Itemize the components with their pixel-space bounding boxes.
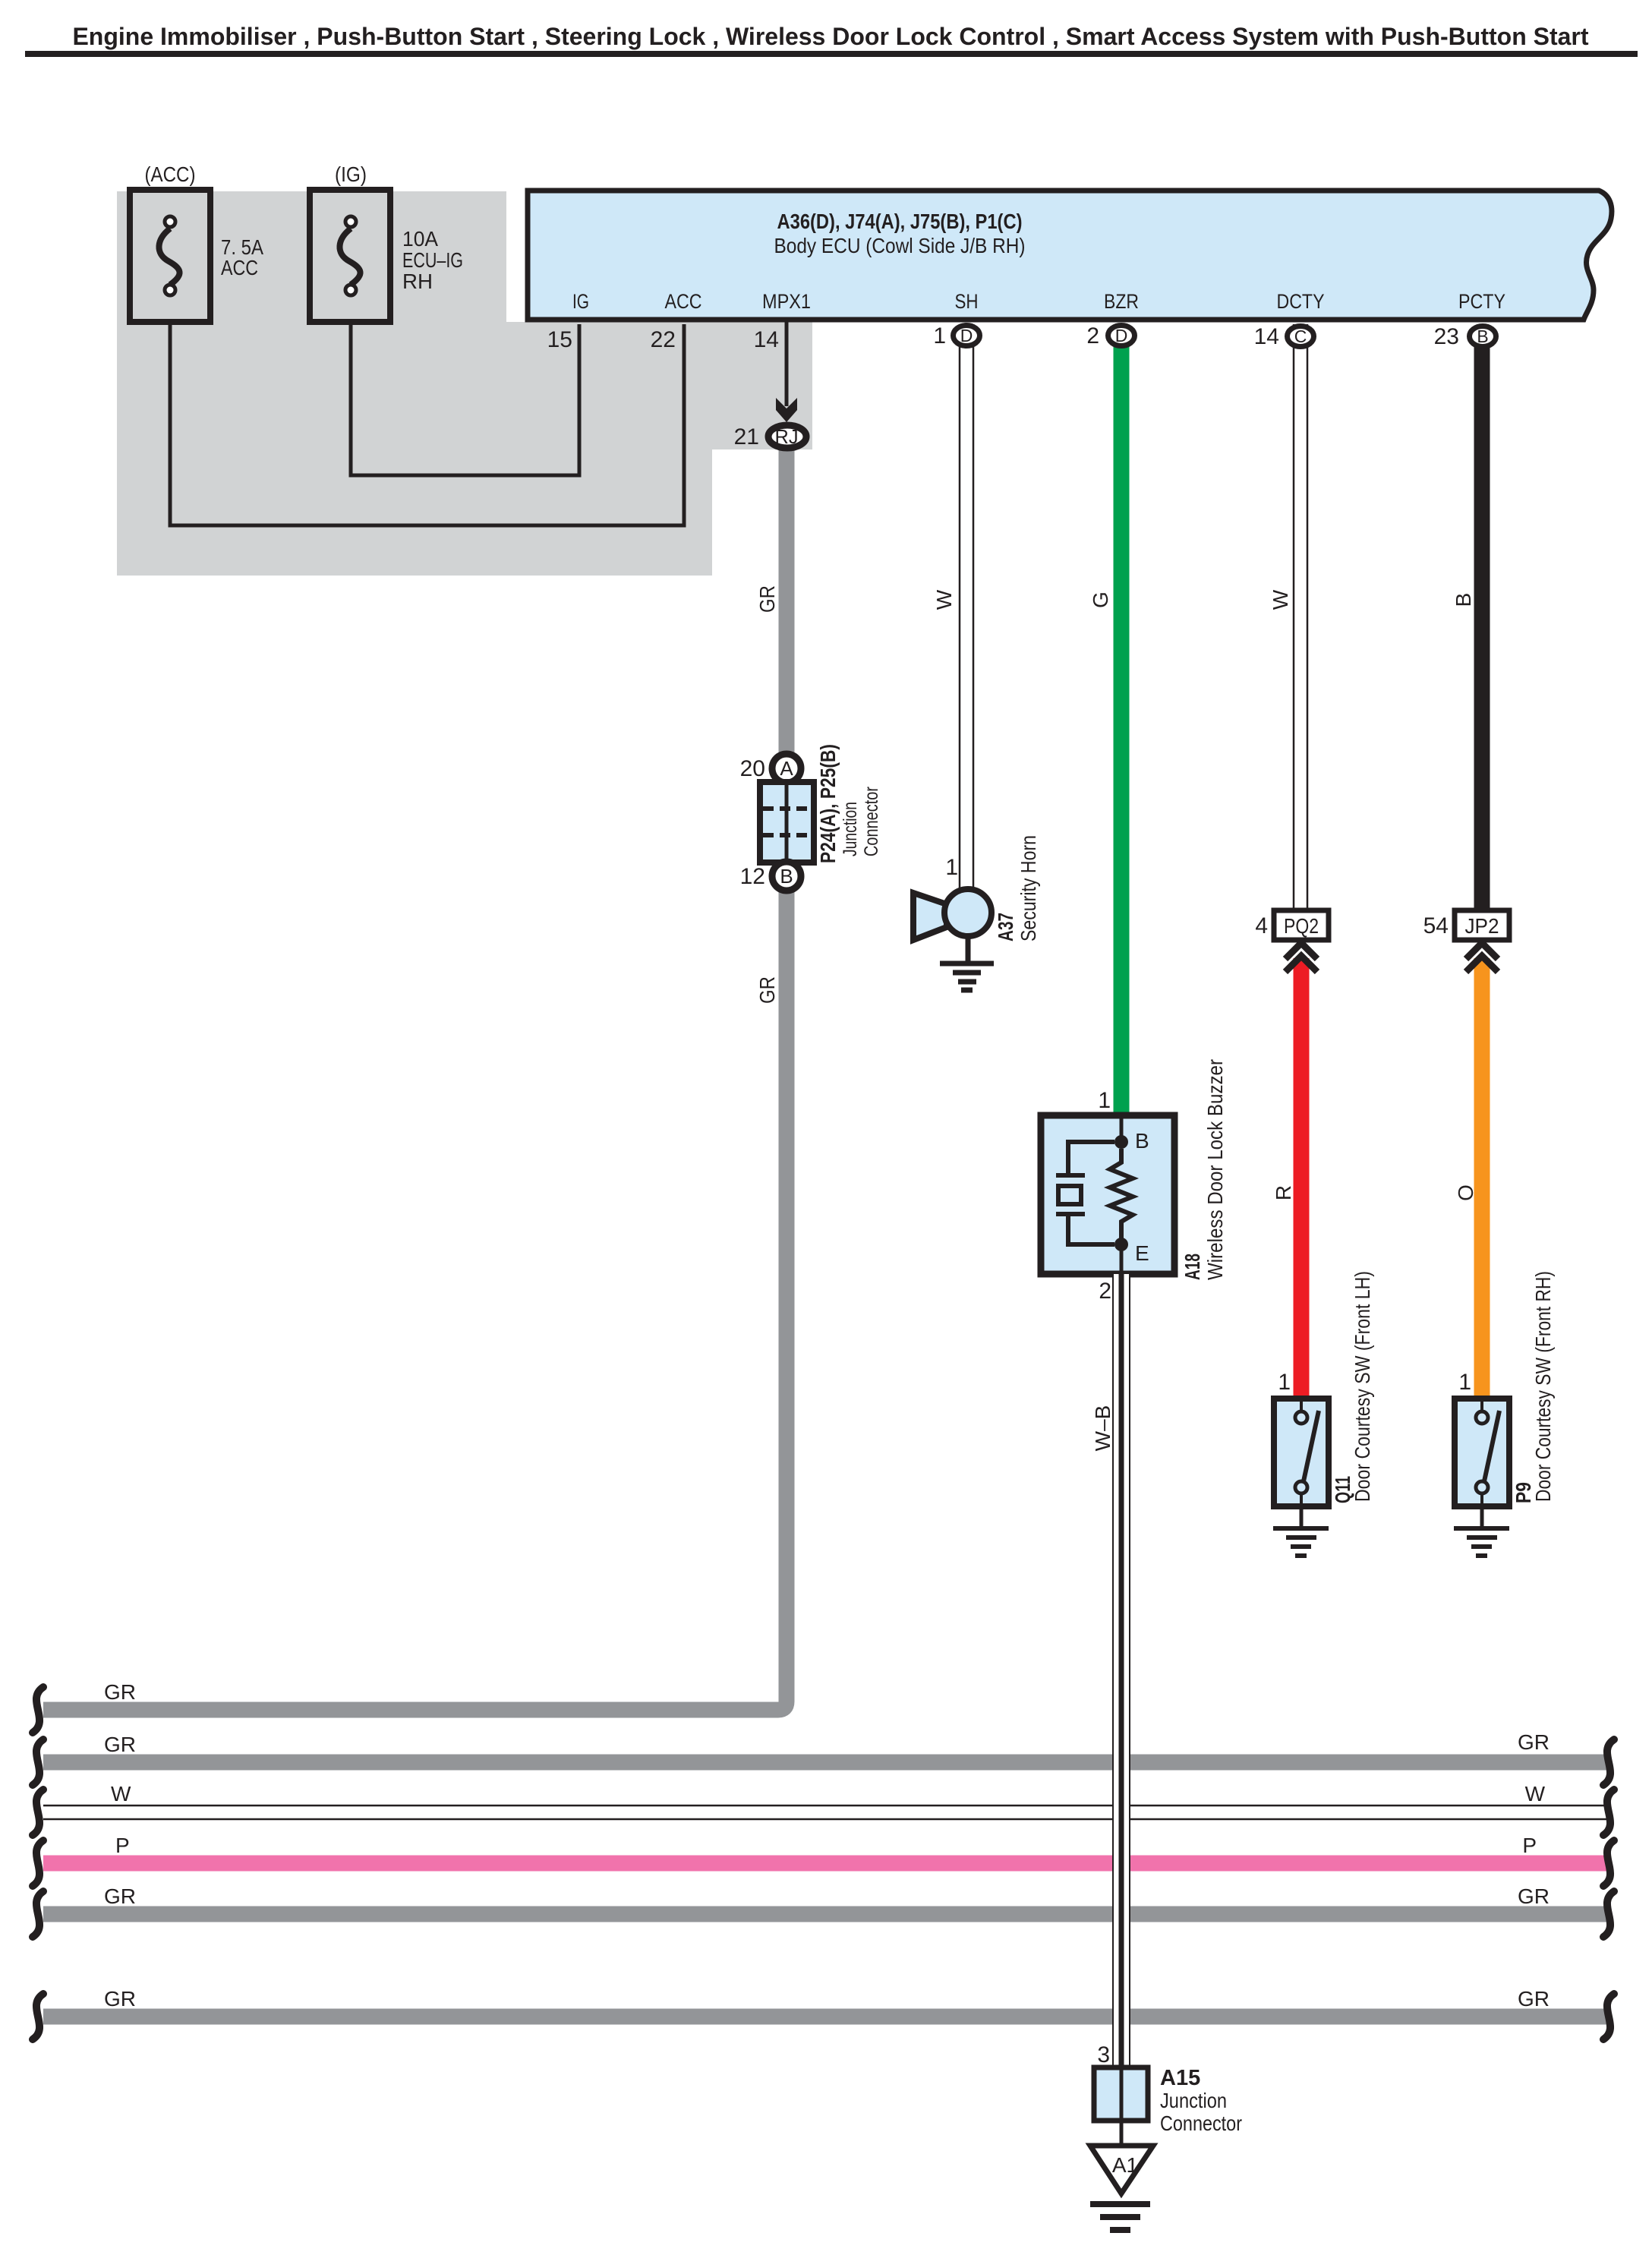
svg-text:A: A [780, 757, 793, 780]
svg-text:BZR: BZR [1104, 290, 1139, 313]
svg-text:B: B [1135, 1129, 1149, 1153]
svg-text:Security Horn: Security Horn [1017, 835, 1040, 941]
svg-text:W–B: W–B [1091, 1405, 1114, 1452]
PCTY black wire [1474, 336, 1490, 910]
svg-text:RJ: RJ [775, 425, 799, 448]
svg-text:GR: GR [1518, 1987, 1550, 2011]
svg-text:3: 3 [1097, 2042, 1110, 2067]
svg-text:A36(D), J74(A), J75(B), P1(C): A36(D), J74(A), J75(B), P1(C) [777, 210, 1023, 233]
door courtesy switch Q11 [1274, 1399, 1329, 1506]
GR wire from RJ down and left to break [43, 437, 787, 1710]
red wire DCTY to Q11 [1294, 958, 1310, 1399]
gray background region [117, 191, 812, 576]
circled D pin 2 (BZR) [1108, 326, 1135, 346]
svg-text:GR: GR [755, 585, 779, 613]
svg-text:PCTY: PCTY [1458, 290, 1505, 313]
wire from fuse IG to ECU pin 15 [351, 295, 579, 475]
door courtesy switch P9 [1455, 1399, 1509, 1506]
svg-text:GR: GR [1518, 1884, 1550, 1908]
connector JP2 [1455, 910, 1509, 972]
junction connector P24(A) P25(B) [760, 754, 814, 891]
svg-text:A1: A1 [1112, 2153, 1138, 2177]
circled C pin 14 (DCTY) [1288, 326, 1314, 347]
ground below Q11 [1273, 1506, 1329, 1556]
svg-text:A37: A37 [994, 913, 1017, 941]
svg-text:P: P [115, 1834, 130, 1857]
svg-text:O: O [1454, 1184, 1477, 1201]
svg-text:Wireless Door Lock Buzzer: Wireless Door Lock Buzzer [1203, 1059, 1227, 1280]
svg-text:P24(A), P25(B): P24(A), P25(B) [816, 744, 840, 863]
svg-text:RH: RH [402, 270, 433, 293]
svg-text:2: 2 [1086, 323, 1099, 348]
DCTY white wire [1294, 324, 1307, 910]
svg-text:DCTY: DCTY [1277, 290, 1325, 313]
junction connector A15 [1094, 2067, 1148, 2121]
svg-text:Body ECU (Cowl Side J/B RH): Body ECU (Cowl Side J/B RH) [774, 234, 1026, 257]
break symbol top GR wire [33, 1687, 43, 1733]
orange wire PCTY to P9 [1474, 958, 1490, 1399]
svg-text:IG: IG [572, 290, 589, 313]
svg-text:B: B [1477, 326, 1488, 346]
svg-text:A15: A15 [1160, 2066, 1200, 2090]
horizontal P wire [33, 1834, 1614, 1886]
horizontal GR wire 3 [33, 1884, 1614, 1937]
svg-text:W: W [111, 1782, 131, 1806]
ground below P9 [1454, 1506, 1509, 1556]
wire from fuse ACC to ECU pin 22 [170, 295, 684, 525]
svg-text:D: D [1115, 326, 1128, 345]
svg-text:15: 15 [547, 327, 572, 352]
svg-text:GR: GR [104, 1733, 136, 1756]
svg-text:(IG): (IG) [335, 162, 367, 186]
svg-text:22: 22 [651, 327, 676, 352]
svg-text:Connector: Connector [1160, 2111, 1242, 2135]
fuse (IG) 10A [310, 190, 390, 322]
svg-text:Connector: Connector [861, 787, 882, 856]
svg-text:4: 4 [1255, 913, 1268, 938]
svg-text:54: 54 [1423, 913, 1449, 938]
svg-text:14: 14 [754, 327, 779, 352]
title [25, 23, 1638, 57]
svg-text:20: 20 [740, 756, 765, 781]
svg-text:12: 12 [740, 864, 765, 889]
svg-text:ACC: ACC [665, 290, 702, 313]
svg-text:(ACC): (ACC) [145, 162, 196, 186]
wire A15 to ground A1 [1120, 2121, 1124, 2146]
wireless door lock buzzer A18 [1041, 1115, 1174, 1274]
svg-text:A18: A18 [1181, 1254, 1204, 1280]
svg-text:ECU–IG: ECU–IG [402, 248, 463, 272]
connector PQ2 [1274, 910, 1329, 972]
horizontal W wire [33, 1782, 1614, 1835]
horizontal GR wire 2 [33, 1730, 1614, 1785]
svg-text:GR: GR [104, 1680, 136, 1704]
svg-text:GR: GR [1518, 1730, 1550, 1754]
svg-text:JP2: JP2 [1465, 914, 1499, 938]
svg-text:1: 1 [1458, 1370, 1471, 1395]
SH white wire [960, 324, 973, 888]
svg-text:SH: SH [955, 290, 979, 313]
svg-text:PQ2: PQ2 [1284, 914, 1319, 938]
svg-text:1: 1 [1278, 1370, 1291, 1395]
svg-text:Door Courtesy SW (Front LH): Door Courtesy SW (Front LH) [1351, 1271, 1374, 1502]
svg-text:W: W [932, 589, 956, 610]
svg-text:23: 23 [1434, 324, 1459, 349]
svg-text:1: 1 [933, 323, 946, 348]
svg-text:C: C [1294, 326, 1307, 346]
svg-text:P: P [1522, 1834, 1537, 1857]
svg-text:1: 1 [1098, 1088, 1111, 1113]
circled B pin 23 (PCTY) [1470, 326, 1496, 347]
svg-text:B: B [1452, 593, 1475, 607]
W-B wire from buzzer to A15 [1112, 1274, 1130, 2067]
svg-text:G: G [1089, 591, 1112, 608]
svg-text:2: 2 [1099, 1279, 1111, 1304]
svg-text:GR: GR [755, 976, 779, 1004]
circled D pin 1 (SH) [954, 326, 980, 346]
svg-text:GR: GR [104, 1884, 136, 1908]
svg-text:W: W [1269, 589, 1292, 610]
svg-text:W: W [1525, 1782, 1546, 1806]
wire MPX1 to RJ [785, 322, 789, 406]
svg-text:E: E [1135, 1241, 1149, 1265]
svg-text:10A: 10A [402, 227, 438, 251]
svg-text:ACC: ACC [221, 256, 258, 279]
svg-text:14: 14 [1254, 324, 1279, 349]
svg-text:MPX1: MPX1 [762, 290, 811, 313]
BZR green wire [1114, 336, 1130, 1116]
horn ground [940, 936, 994, 990]
svg-text:R: R [1272, 1185, 1295, 1200]
svg-text:D: D [960, 326, 973, 345]
horizontal GR wire 4 [33, 1987, 1614, 2039]
svg-text:1: 1 [945, 855, 958, 880]
svg-text:GR: GR [104, 1987, 136, 2011]
svg-text:21: 21 [734, 424, 759, 449]
svg-text:Engine Immobiliser , Push-Butt: Engine Immobiliser , Push-Button Start ,… [72, 23, 1588, 50]
svg-text:Door Courtesy SW (Front RH): Door Courtesy SW (Front RH) [1531, 1271, 1555, 1502]
fuse (ACC) 7.5A [130, 190, 210, 322]
ground triangle A1 [1090, 2146, 1153, 2193]
ground symbol A1 [1090, 2204, 1150, 2230]
arrow into RJ [776, 398, 797, 422]
body ECU box A36(D) J74(A) J75(B) P1(C) [528, 191, 1612, 320]
svg-text:Junction: Junction [1160, 2089, 1227, 2112]
svg-text:Junction: Junction [840, 802, 861, 856]
security horn A37 [913, 889, 992, 940]
svg-text:B: B [780, 865, 793, 888]
connector RJ pin 21 [768, 425, 806, 448]
